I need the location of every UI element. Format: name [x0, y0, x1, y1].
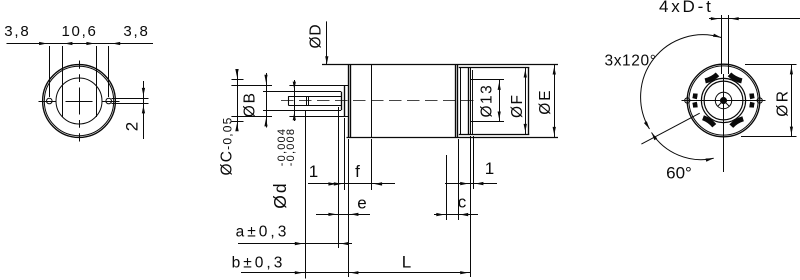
svg-text:f: f [355, 162, 360, 181]
svg-text:3x120°: 3x120° [604, 53, 656, 70]
svg-text:2: 2 [123, 122, 142, 131]
svg-text:4xD-t: 4xD-t [659, 0, 714, 16]
svg-text:e: e [357, 194, 366, 213]
svg-text:60°: 60° [666, 164, 692, 183]
svg-text:ØF: ØF [509, 93, 526, 118]
svg-text:1: 1 [309, 162, 318, 181]
svg-text:1: 1 [485, 159, 494, 178]
svg-text:Ø13: Ø13 [479, 84, 496, 118]
svg-text:3,8: 3,8 [123, 23, 149, 40]
svg-text:ØE: ØE [537, 88, 554, 114]
svg-text:c: c [458, 193, 467, 212]
svg-text:Ød: Ød [270, 181, 290, 208]
svg-text:3,8: 3,8 [4, 23, 30, 40]
svg-text:L: L [402, 253, 411, 272]
svg-text:ØR: ØR [775, 89, 792, 117]
svg-text:ØD: ØD [308, 24, 325, 49]
svg-text:-0,008: -0,008 [285, 128, 297, 166]
svg-text:b±0,3: b±0,3 [232, 254, 286, 271]
svg-text:ØB: ØB [241, 91, 258, 117]
svg-text:a±0,3: a±0,3 [236, 223, 290, 240]
svg-text:ØC-0,05: ØC-0,05 [219, 116, 236, 175]
svg-text:10,6: 10,6 [62, 23, 98, 40]
